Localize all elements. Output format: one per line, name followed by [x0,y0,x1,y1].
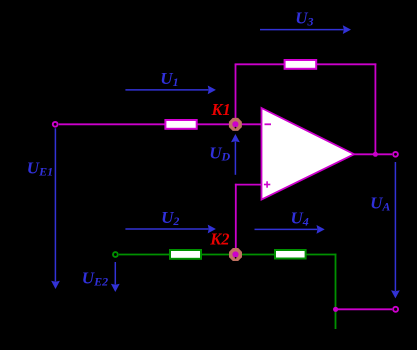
wire feedback top right horizontal [316,63,376,65]
terminal input2 open circle green [113,252,118,257]
resistor R1 input top [165,120,196,129]
resistor R4 bottom right [275,250,306,259]
arrow U1 [125,86,215,95]
wire green R4 to corner [306,254,337,256]
wire horizontal to op-amp plus input [235,184,262,186]
arrow UA [391,162,400,298]
terminal input1 open circle [53,122,58,127]
op-amp plus sign [264,181,270,187]
wire R1 to K1 [195,123,232,125]
svg-text:K1: K1 [211,100,231,119]
wire green input2 terminal to R2 [119,254,171,256]
svg-text:K2: K2 [209,230,229,249]
wire bottom right rail [336,308,393,310]
op-amp U1 triangle [262,108,355,200]
junction dot bottom rail [333,307,338,312]
wire green R2 to K2 [201,254,232,256]
resistor R2 input bottom [170,250,201,259]
wire K1 to op-amp minus input [238,123,262,125]
node K2 junction [229,248,242,261]
arrow UD [231,134,240,175]
op-amp minus sign [265,123,272,125]
arrow U3 [260,25,351,34]
arrow U2 [125,225,215,234]
wire feedback top left horizontal [235,63,285,65]
wire K1 up feedback left vertical [235,64,237,119]
terminal output open circle [393,152,398,157]
arrow UE1 [51,128,60,289]
node K1 junction [229,118,242,131]
wire input1 from terminal to R1 [59,123,166,125]
resistor R3 feedback [285,60,317,69]
wire op-amp output to terminal [354,153,392,155]
wire green right vertical down stub [335,254,337,329]
junction dot output [373,152,378,157]
terminal bottom right open circle [393,307,398,312]
arrow U4 [255,225,325,234]
wire feedback right vertical down to output [374,63,376,154]
arrow UE2 [111,262,120,292]
wire K2 up vertical to plus input [235,184,237,250]
wire green K2 to R4 [239,254,276,256]
